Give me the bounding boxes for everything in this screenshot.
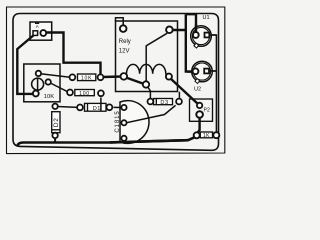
- transistor U1 tab: [194, 43, 199, 48]
- wire feed into U2 left pad: [187, 70, 194, 72]
- relay coil pad middle: [143, 81, 149, 87]
- potentiometer pad top: [36, 71, 41, 76]
- diode D1 pad left: [77, 105, 83, 111]
- fuse F1 square pad: [33, 31, 38, 36]
- svg-text:C1815: C1815: [115, 110, 121, 132]
- wire U1 square pad right and down to 1K right pad: [209, 35, 216, 133]
- relay coil pad right: [166, 74, 172, 80]
- relay coil: [127, 64, 169, 76]
- wire P2 bottom pad to 1K left pad: [197, 118, 199, 134]
- svg-text:Rely: Rely: [119, 39, 131, 45]
- resistor 1K pad left: [194, 132, 200, 138]
- svg-text:D2: D2: [53, 117, 60, 127]
- diode D2 pad top: [52, 104, 57, 109]
- transistor U2 tab: [195, 79, 200, 84]
- wire 10K right pad to relay coil left pad: [103, 75, 123, 78]
- wire D2 bottom pad to rail: [54, 137, 56, 143]
- transistor Q1 pin bottom: [121, 136, 126, 141]
- wire D2 top pad to D1 left pad: [58, 106, 78, 109]
- diode D3 pad left: [148, 99, 154, 105]
- wire D1 right pad to Q1 top pin: [114, 106, 122, 108]
- wire Q1 bottom pin to rail: [123, 139, 125, 142]
- svg-text:100: 100: [79, 91, 90, 97]
- svg-text:U2: U2: [194, 87, 201, 93]
- diode D3 pad right: [176, 99, 182, 105]
- transistor U1 pad right square: [205, 33, 210, 38]
- resistor 1K body: [200, 132, 212, 138]
- transistor U2 can: [192, 61, 213, 82]
- relay pad top-right: [166, 27, 173, 34]
- transistor Q1 pin middle: [121, 120, 126, 125]
- potentiometer rotor: [32, 78, 44, 90]
- wire relay coil right pad to P2 top pad: [171, 79, 199, 105]
- svg-text:12V: 12V: [119, 48, 130, 54]
- resistor 10K pad right: [98, 74, 104, 80]
- diode D1 pad right: [107, 104, 113, 110]
- svg-text:P2: P2: [204, 107, 210, 113]
- potentiometer pad bottom: [33, 91, 39, 97]
- potentiometer box: [24, 64, 60, 102]
- wire coil middle pad to D3 left pad: [148, 87, 151, 100]
- svg-text:10K: 10K: [81, 76, 92, 82]
- fuse F1 round pad: [40, 30, 46, 36]
- wire F1 circle pad to 10K resistor right pad: [46, 33, 101, 76]
- resistor 10K pad left: [70, 74, 76, 80]
- svg-text:10K: 10K: [44, 94, 54, 100]
- diode D2 body: [52, 112, 60, 133]
- wire relay top-right pad to U1 and U2 left pads: [171, 14, 196, 71]
- fuse F1 box: [30, 22, 52, 40]
- resistor 100 body: [75, 90, 95, 96]
- resistor 100 pad left: [67, 90, 73, 96]
- diode D3 body: [154, 99, 173, 105]
- resistor 100 pad right: [98, 90, 104, 96]
- wire feed into U1 left pad: [195, 25, 197, 34]
- wire pot top pad to 10K left pad: [41, 74, 71, 78]
- wire Q1 middle pin to D3 right pad: [126, 105, 176, 123]
- wire pot right pad to 100 left pad: [50, 83, 68, 92]
- resistor 10K body: [78, 74, 96, 81]
- relay coil pad left: [121, 73, 128, 80]
- connector P2 box: [190, 99, 213, 121]
- transistor U2 pad right square: [204, 69, 209, 74]
- wire relay box corner stub to D3 right pad: [178, 92, 180, 99]
- relay box: [116, 21, 178, 92]
- relay pad top-left: [120, 25, 127, 32]
- potentiometer pad right: [46, 79, 51, 84]
- border frame: [7, 7, 225, 154]
- transistor U2 pad left: [193, 68, 199, 74]
- wire relay coil left pad to coil middle pad: [125, 77, 146, 85]
- wire U2 square pad to right trace: [208, 70, 217, 72]
- svg-text:D1: D1: [93, 106, 101, 112]
- connector P2 pad top: [197, 103, 202, 108]
- transistor U1 can: [191, 26, 212, 47]
- wire F1 square pad to left rail to pot bottom pad: [17, 35, 34, 94]
- ground rail over Q1 body: [110, 140, 188, 142]
- wire 100 right pad down through D1 body: [100, 98, 102, 111]
- wire relay switch lever: [146, 33, 167, 81]
- ground rail: [17, 136, 197, 146]
- fuse F1 label: [35, 22, 39, 24]
- transistor Q1 pin top: [121, 105, 126, 110]
- resistor 1K pad right: [213, 132, 219, 138]
- wire U1 square pad to right trace: [208, 34, 217, 36]
- svg-text:1K: 1K: [203, 133, 210, 139]
- diode D1 body: [85, 103, 107, 111]
- board outline: [13, 14, 219, 151]
- svg-text:D3: D3: [160, 100, 168, 106]
- svg-text:U1: U1: [203, 15, 210, 21]
- diode D2 pad bottom: [52, 133, 57, 138]
- wire U2 square pad stub: [209, 70, 217, 72]
- svg-text:A: A: [36, 24, 39, 29]
- transistor Q1 body: [120, 101, 149, 144]
- transistor U1 pad left: [193, 32, 199, 38]
- wire relay top-left pad up-left to box corner: [116, 18, 124, 27]
- connector P2 pad bottom: [196, 111, 203, 118]
